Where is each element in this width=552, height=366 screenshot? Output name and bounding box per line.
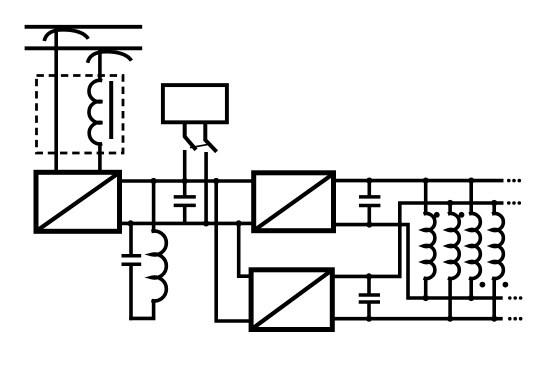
- DC bus bottom: [120, 222, 254, 226]
- converter U3 (DC/AC bottom) box: [251, 270, 332, 330]
- disconnect symbol left leg: [185, 123, 196, 150]
- node: bottom bus / C2 filter branch: [128, 220, 134, 226]
- DC bus top: [120, 179, 254, 183]
- polarity dot Lb: [459, 212, 465, 218]
- node: La top on line 1: [423, 178, 429, 184]
- coupled inductor Lb: [448, 214, 459, 279]
- wire: line1 to capacitor C3: [367, 181, 371, 196]
- wire: U3 top output to line 2 riser: [332, 203, 503, 276]
- node: Ld top on line 2: [491, 200, 497, 206]
- converter U2 (DC/AC top) box: [254, 173, 334, 231]
- wire: line1 to coil Lc: [469, 181, 473, 215]
- wire: line2 to coil Ld: [492, 203, 496, 215]
- continuation dots line 3: [508, 296, 522, 300]
- node: bottom bus / disconnect leg: [203, 220, 209, 226]
- output line 1 (phase a): [334, 179, 504, 183]
- control box U4 (top middle): [163, 85, 227, 122]
- coupled inductor Ld: [492, 214, 503, 279]
- wire: Lc bottom to line 3: [469, 278, 473, 299]
- wire: U2 bottom output to line 3 riser: [334, 225, 503, 298]
- node: top bus / L2 branch: [151, 178, 157, 184]
- wire: C1 bottom to lower DC bus: [183, 206, 187, 223]
- capacitor C4 plates: [359, 293, 380, 297]
- capacitor C1 plates: [174, 195, 196, 199]
- wire: La bottom to line 3: [424, 278, 428, 299]
- wire: top bus down to inductor L2: [152, 181, 156, 232]
- coupled inductor La: [424, 214, 435, 279]
- disconnect symbol right leg: [205, 123, 216, 152]
- wire: line2 to coil Lb: [448, 203, 452, 215]
- transformer core bar: [109, 81, 113, 139]
- wire: line1 to coil La: [424, 181, 428, 215]
- polarity dot Ld: [503, 282, 509, 288]
- node: C4 top: [366, 273, 372, 279]
- wire: C2 bottom to filter connector: [129, 265, 133, 320]
- node: La bottom on line 3: [423, 295, 429, 301]
- node: Lc top on line 1: [468, 178, 474, 184]
- wire: feed from bottom bus to U3 top input: [239, 223, 251, 276]
- wire: bottom bus down to capacitor C2: [129, 223, 133, 254]
- wire: Lb bottom to line 4: [448, 278, 452, 319]
- wire: dropper from bar B1 to converter U1: [54, 25, 58, 172]
- wire: from L1 to converter U1: [98, 144, 102, 172]
- wire: disconnect left to DC bus / capacitor C1 branch: [183, 150, 187, 196]
- node: Lb top on line 2: [447, 200, 453, 206]
- node: C3 bottom: [366, 222, 372, 228]
- wire: C3 to U2 bottom output: [367, 206, 371, 224]
- output line 4 (phase d) from U3 bottom: [332, 317, 502, 321]
- polarity dot La: [434, 212, 440, 218]
- disconnect symbol thin bar: [190, 144, 212, 148]
- converter U1 (AC/DC) box: [36, 172, 120, 231]
- wire: L2 bottom: [152, 301, 156, 319]
- wire: dropper from bar B2 to inductor L1: [98, 48, 102, 81]
- wire: C4 to line 4: [367, 303, 371, 319]
- continuation dots line 2: [507, 201, 521, 205]
- wire: Ld bottom to line 4: [492, 278, 496, 319]
- converter U2 diagonal: [254, 174, 334, 231]
- polarity dot Lc: [480, 282, 486, 288]
- node: top bus / feed to U3: [213, 178, 219, 184]
- inductor L1 (transformer winding, bulging left): [89, 80, 102, 144]
- capacitor C3 plates: [359, 195, 380, 199]
- wire: feed from top bus to U3 bottom input: [216, 181, 251, 321]
- converter U1 diagonal: [36, 172, 120, 231]
- wire: disconnect right leg to lower DC bus: [204, 152, 208, 223]
- capacitor C2 plates: [122, 254, 142, 258]
- wire: U3 top output to capacitor C4: [367, 276, 371, 293]
- node: Lb bottom on line 4: [447, 316, 453, 322]
- node: Ld bottom on line 4: [491, 316, 497, 322]
- continuation dots line 1: [507, 179, 521, 183]
- coupled inductor Lc: [469, 214, 480, 279]
- node: bottom bus / feed to U3 top input: [236, 220, 242, 226]
- breaker arc S2 under bar B2: [88, 52, 132, 63]
- dashed box (transformer unit): [37, 76, 124, 154]
- node: top bus / C1 branch: [182, 178, 188, 184]
- breaker arc S1 under bar B1: [44, 30, 88, 41]
- node: C4 bottom on line 4: [366, 316, 372, 322]
- inductor L2 (filter choke, bulging right): [151, 231, 166, 301]
- continuation dots line 4: [508, 317, 522, 321]
- node: C3 top on line 1: [366, 178, 372, 184]
- converter U3 diagonal: [251, 270, 332, 330]
- wire: filter bottom connector: [129, 317, 155, 321]
- bus bar B1 (top grid bar): [25, 25, 143, 29]
- bus bar B2 (second grid bar): [25, 46, 143, 50]
- node: Lc bottom on line 3: [468, 295, 474, 301]
